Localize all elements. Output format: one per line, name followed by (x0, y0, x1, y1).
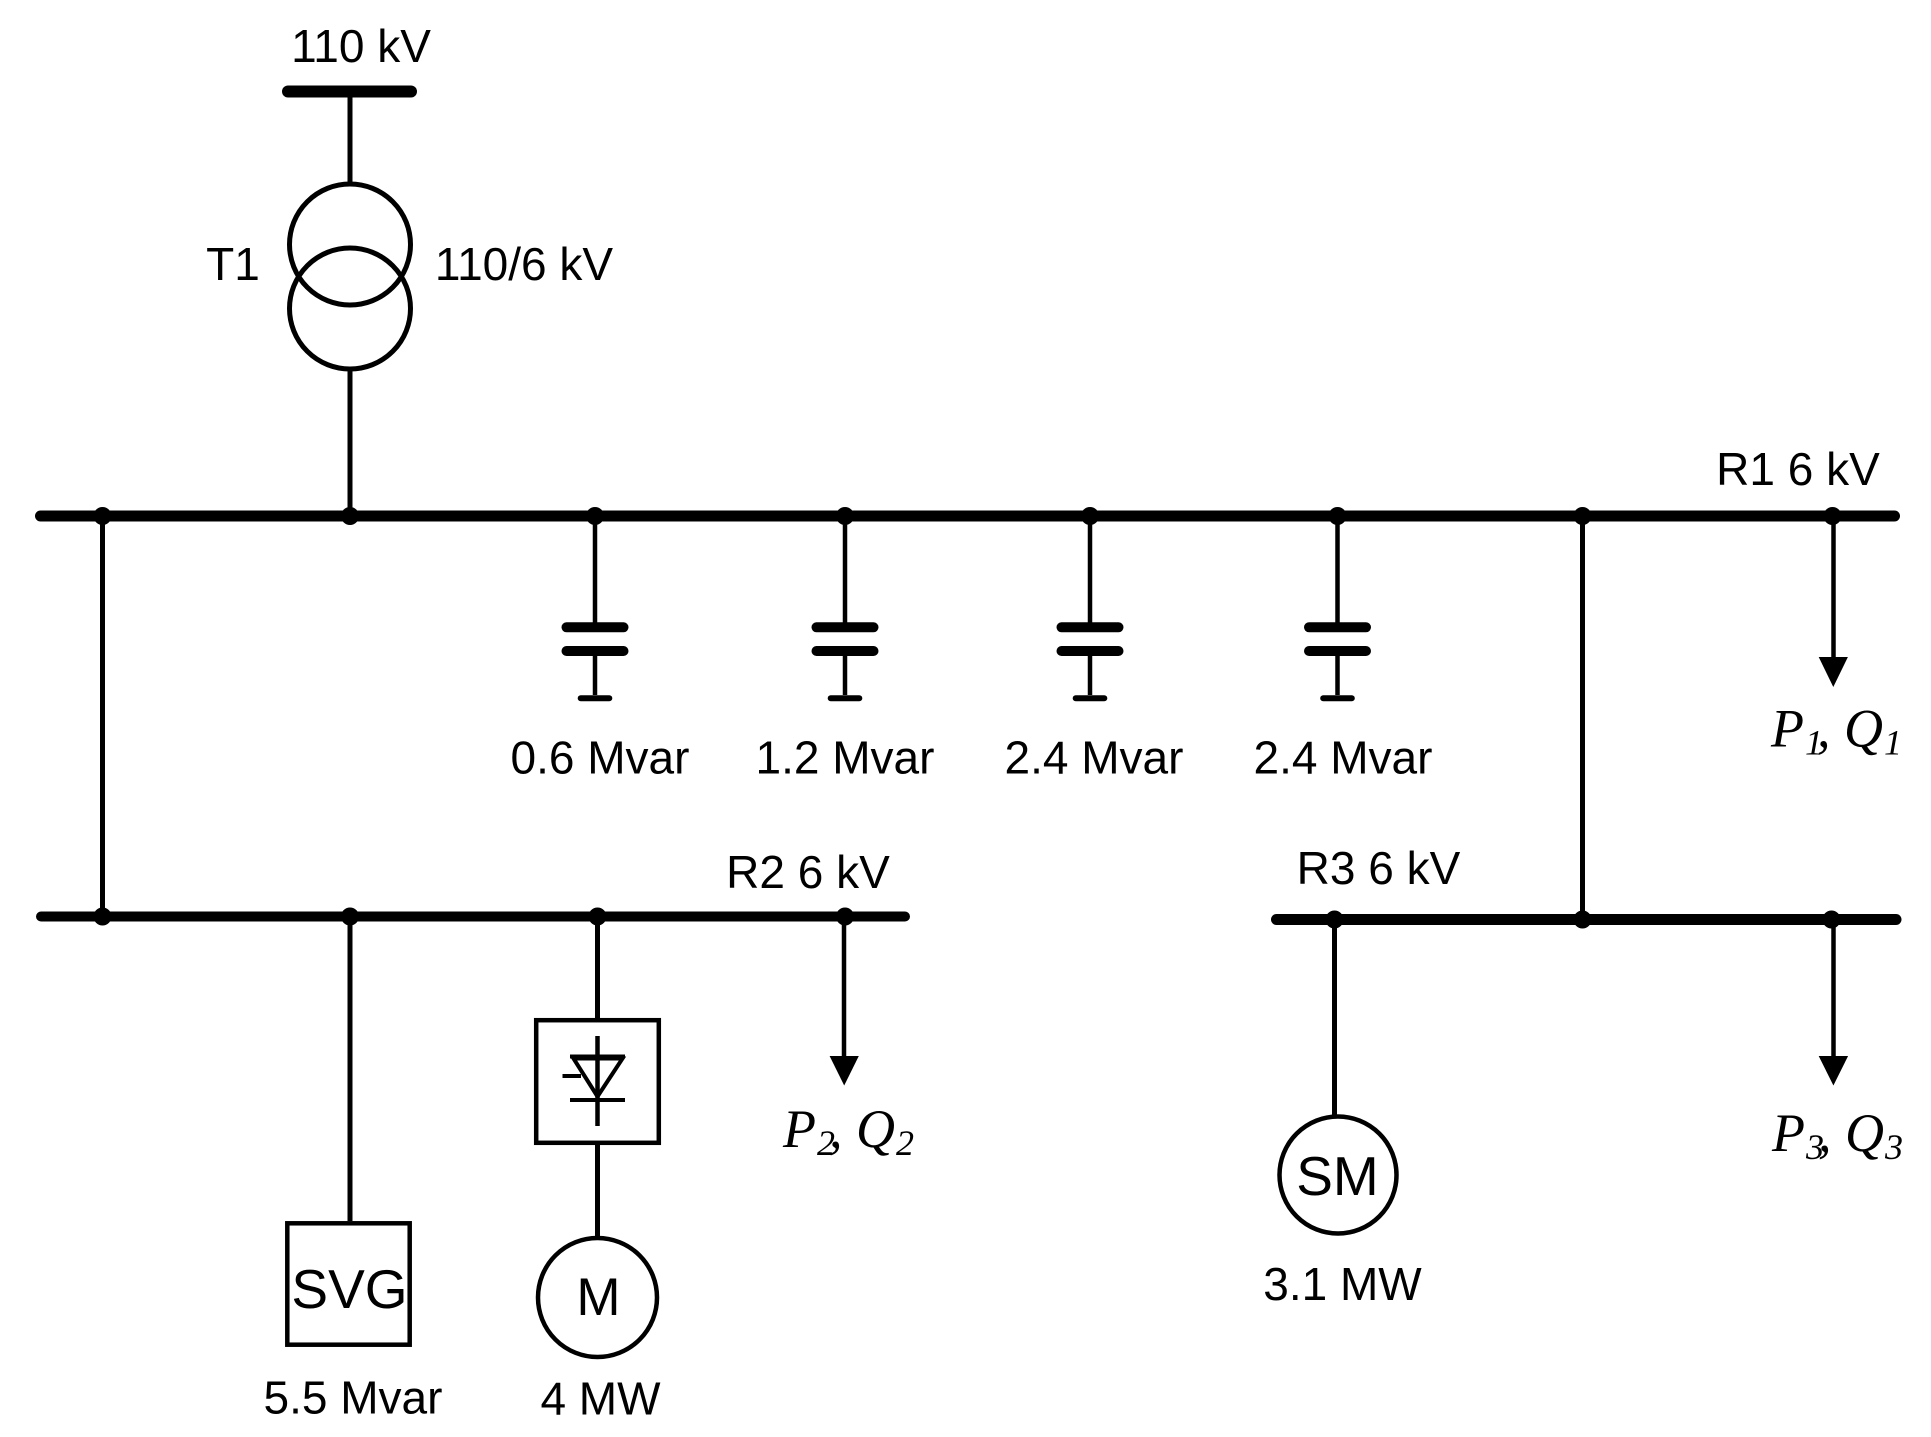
svg-text:110/6 kV: 110/6 kV (435, 238, 613, 290)
svg-text:2.4 Mvar: 2.4 Mvar (1254, 732, 1433, 784)
svg-text:Q: Q (856, 1099, 895, 1159)
svg-text:P: P (782, 1099, 816, 1159)
svg-text:R1 6 kV: R1 6 kV (1716, 443, 1880, 495)
svg-text:5.5 Mvar: 5.5 Mvar (264, 1372, 443, 1424)
svg-text:Q: Q (1845, 1103, 1884, 1163)
svg-text:2.4 Mvar: 2.4 Mvar (1005, 732, 1184, 784)
svg-text:SVG: SVG (291, 1258, 407, 1320)
svg-text:SM: SM (1296, 1145, 1379, 1207)
svg-text:P: P (1770, 699, 1804, 759)
svg-text:,: , (1817, 699, 1831, 759)
svg-text:M: M (576, 1268, 620, 1327)
svg-text:0.6 Mvar: 0.6 Mvar (511, 732, 690, 784)
svg-text:3: 3 (1884, 1127, 1903, 1167)
svg-text:Q: Q (1844, 699, 1883, 759)
svg-text:3.1 MW: 3.1 MW (1263, 1258, 1422, 1310)
svg-text:1.2 Mvar: 1.2 Mvar (756, 732, 935, 784)
svg-text:4 MW: 4 MW (540, 1373, 661, 1425)
svg-text:1: 1 (1884, 723, 1902, 763)
svg-text:110 kV: 110 kV (291, 20, 431, 72)
svg-text:2: 2 (896, 1123, 914, 1163)
svg-text:P: P (1771, 1103, 1805, 1163)
svg-text:,: , (829, 1099, 843, 1159)
svg-text:R3 6 kV: R3 6 kV (1297, 842, 1461, 894)
svg-text:,: , (1818, 1103, 1832, 1163)
svg-text:R2 6 kV: R2 6 kV (726, 846, 890, 898)
svg-text:T1: T1 (206, 238, 260, 290)
